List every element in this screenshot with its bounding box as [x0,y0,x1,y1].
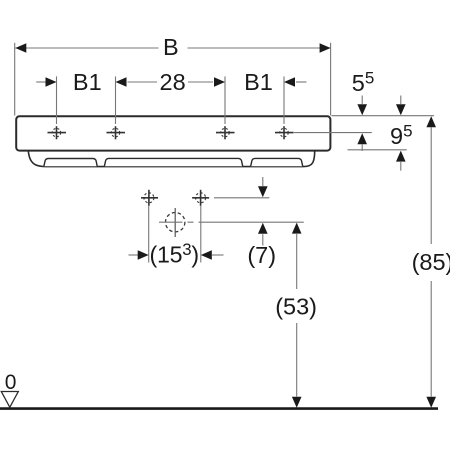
bowl front bump right [251,158,303,166]
fixing cross left [141,190,158,206]
tap hole cross 4 [275,126,294,139]
datum triangle [1,392,18,408]
svg-text:0: 0 [5,371,17,394]
drain circle (dashed) [166,213,185,232]
dimension (53) line and arrows [292,223,302,408]
row2 extension line at tap 2 [115,76,117,124]
svg-text:B1: B1 [73,69,102,95]
bowl front bump middle [104,158,242,166]
svg-text:B: B [163,34,179,60]
svg-text:28: 28 [160,69,186,95]
tap hole cross 2 [107,126,126,139]
floor line [0,407,438,410]
row2 extension line at tap 4 [283,76,285,124]
tap hole cross 1 [48,126,67,139]
dimension (7) arrows [258,177,268,246]
svg-text:(153): (153) [150,240,199,268]
basin bowl outer silhouette [28,151,314,167]
tap centre extension line to the right [294,132,372,134]
dimension B line and arrows [15,43,330,53]
rim bottom extension line to the right [348,149,407,151]
dimension 9.5 arrows [396,96,406,171]
dimension B extension line left [14,43,16,116]
fixing height reference line [214,197,269,199]
bowl front bump left [44,159,97,167]
svg-text:(53): (53) [275,294,317,320]
svg-text:B1: B1 [244,69,273,95]
drain horizontal centreline / reference line [159,221,304,223]
dimension B extension line right [330,43,332,116]
fixing cross right [192,190,209,206]
row2 extension line at tap 1 [56,76,58,124]
basin rim (front view rectangle) [16,116,330,150]
dimension 5.5 arrows [357,96,367,152]
dimension (85) line and arrows [426,116,436,408]
tap hole cross 3 [216,126,235,139]
rim top extension line to the right [332,115,435,117]
dimension 28 line and arrows [116,77,226,87]
drain vertical centreline [174,208,176,237]
dimension B1 left arrow [36,77,56,87]
dimension B1 right arrow [284,77,307,87]
dimension (15_3) arrows [129,250,224,260]
svg-text:(85): (85) [412,249,450,275]
svg-text:(7): (7) [247,242,276,268]
row2 extension line at tap 3 [224,76,226,124]
dimension (15_3) extension line left [148,206,150,263]
dimension (15_3) extension line right [200,206,202,263]
